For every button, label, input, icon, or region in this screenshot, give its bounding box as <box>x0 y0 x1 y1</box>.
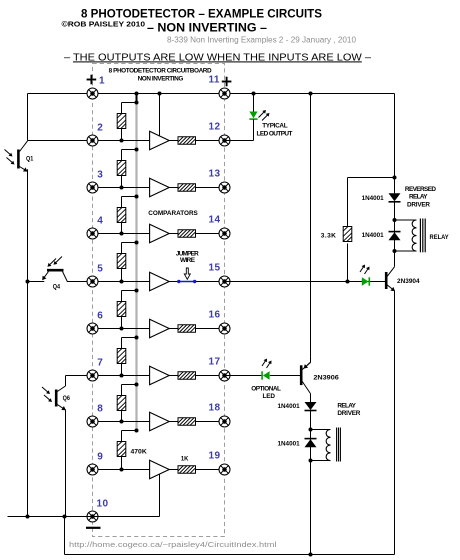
label OPTIONAL LED <box>251 385 281 400</box>
plus sign at terminal 11 <box>222 77 232 87</box>
transistor Q1 phototransistor <box>18 141 27 172</box>
svg-text:4: 4 <box>97 215 103 226</box>
svg-text:LED OUTPUT: LED OUTPUT <box>257 130 293 137</box>
svg-text:2N3906: 2N3906 <box>313 375 339 382</box>
resistor R4 pull-up <box>117 241 138 282</box>
light arrows out of LED D4 <box>360 265 370 275</box>
svg-text:NON INVERTING: NON INVERTING <box>138 76 184 83</box>
svg-text:14: 14 <box>209 215 221 226</box>
resistor R7 pull-up <box>117 383 138 422</box>
wire: left rail vertical x=27 <box>26 94 30 519</box>
op-amp comparator U5 <box>150 319 170 338</box>
terminal 9 <box>87 464 98 475</box>
op-amp comparator U1 <box>150 131 170 150</box>
LED D1 typical led output (green) <box>225 94 258 141</box>
resistor output row 18 <box>178 418 196 426</box>
terminal 5 <box>87 276 98 287</box>
wire: row 8 input to comparator <box>93 420 150 424</box>
label RELAY DRIVER <box>337 402 360 417</box>
wire: mid vertical V+ to 2N3906 emitter <box>310 94 312 357</box>
svg-text:LED: LED <box>263 393 276 400</box>
op-amp comparator U7 <box>150 412 170 431</box>
wire: terminal 7 row to Q6 collector <box>66 375 93 377</box>
resistor R2 pull-up <box>117 148 138 188</box>
svg-text:DRIVER: DRIVER <box>337 410 360 417</box>
terminal 11 <box>219 88 230 99</box>
svg-text:RELAY: RELAY <box>409 193 428 200</box>
terminal 10 <box>87 511 98 522</box>
svg-text:12: 12 <box>209 122 221 133</box>
wire: row 5 input to comparator <box>93 280 150 284</box>
wire: comparator 6 output to terminal 17 <box>169 375 224 377</box>
relay K2 coil <box>311 428 341 462</box>
svg-text:19: 19 <box>209 451 221 462</box>
label TYPICAL LED OUTPUT <box>257 122 293 137</box>
op-amp comparator U6 <box>150 366 170 385</box>
wire: row 4 input to comparator <box>93 232 150 236</box>
svg-text:8: 8 <box>97 403 103 414</box>
wire: ground row terminal 10 <box>8 515 93 519</box>
terminal 14 <box>219 228 230 239</box>
light arrows out of LED D5 <box>262 359 272 369</box>
wire: left rail corner to terminal 2 <box>28 140 93 142</box>
wire: row 9 input to comparator <box>93 468 150 472</box>
diode D7 1N4001 flyback (points up) <box>305 439 317 448</box>
wire: diode D2 to relay top junction <box>393 202 397 253</box>
svg-text:OPTIONAL: OPTIONAL <box>251 385 281 392</box>
wire: comparator 3 output to terminal 14 <box>169 233 224 235</box>
svg-text:3: 3 <box>97 169 103 180</box>
svg-text:8 PHOTODETECTOR – EXAMPLE CIRC: 8 PHOTODETECTOR – EXAMPLE CIRCUITS <box>81 6 322 20</box>
wire: 2N3906 collector down <box>310 394 312 402</box>
terminal 8 <box>87 416 98 427</box>
light arrows out of LED D1 <box>259 110 270 121</box>
terminal 16 <box>219 323 230 334</box>
svg-text:1: 1 <box>99 76 105 87</box>
svg-text:– NON INVERTING –: – NON INVERTING – <box>147 23 268 35</box>
op-amp comparator U8 <box>150 460 170 479</box>
terminal 7 <box>87 370 98 381</box>
svg-text:2N3904: 2N3904 <box>397 278 420 285</box>
jumper wire label and arrow <box>176 250 199 279</box>
transistor Q4 phototransistor <box>42 270 67 281</box>
resistor R1 pull-up <box>117 101 138 141</box>
transistor Q6 phototransistor <box>56 376 66 517</box>
terminal 18 <box>219 416 230 427</box>
terminal 2 <box>87 135 98 146</box>
light arrows into Q6 <box>42 387 52 402</box>
terminal 6 <box>87 323 98 334</box>
svg-text:18: 18 <box>209 403 221 414</box>
wire: relay K2 bottom to ground frame <box>310 461 312 555</box>
op-amp comparator U3 <box>150 224 170 243</box>
label REVERSED RELAY DRIVER <box>405 186 436 209</box>
svg-text:6: 6 <box>97 310 103 321</box>
svg-text:11: 11 <box>209 75 220 86</box>
resistor 3.3K <box>343 178 394 282</box>
light arrows into Q1 <box>5 150 15 165</box>
svg-text:16: 16 <box>209 310 221 321</box>
wire: diode D6 to relay K2 <box>309 411 313 463</box>
circuit board dashed outline <box>93 64 225 537</box>
resistor output row 19 <box>178 466 196 474</box>
transistor Q3 2N3906 (PNP) <box>301 357 310 394</box>
board label: 8 PHOTODETECTOR CIRCUITBOARD / NON INVERTING <box>109 68 212 83</box>
wire: comparator 5 output to terminal 16 <box>169 328 224 330</box>
svg-text:Q1: Q1 <box>26 156 34 163</box>
wire: right rail V+ down to diode <box>393 94 397 194</box>
svg-text:1N4001: 1N4001 <box>362 232 384 239</box>
svg-text:7: 7 <box>97 357 103 368</box>
terminal 13 <box>219 182 230 193</box>
resistor output row 17 <box>178 372 196 380</box>
svg-text:9: 9 <box>97 451 103 462</box>
diode D2 1N4001 (reversed relay driver, series) <box>389 193 401 202</box>
svg-text:8-339 Non Inverting Examples 2: 8-339 Non Inverting Examples 2 - 29 Janu… <box>167 35 357 44</box>
wire: row 2 input to comparator <box>93 139 150 143</box>
wire: comparator 2 output to terminal 13 <box>169 187 224 189</box>
svg-text:5: 5 <box>97 263 103 274</box>
minus bar below terminal 10 <box>86 527 101 529</box>
jumper wire (blue) row 15 <box>177 280 196 283</box>
svg-text:17: 17 <box>209 357 221 368</box>
svg-text:Q4: Q4 <box>53 284 61 291</box>
relay K1 coil <box>395 219 426 253</box>
svg-text:Q6: Q6 <box>63 395 71 402</box>
terminal 12 <box>219 135 230 146</box>
resistor R5 pull-up <box>117 289 138 329</box>
wire: row 7 input to comparator <box>93 374 150 378</box>
wire: gray V+ bus for pull-up resistors <box>136 94 138 431</box>
LED D5 optional (green, points left) <box>262 371 270 379</box>
svg-text:1N4001: 1N4001 <box>362 195 384 202</box>
light arrows into Q4 <box>48 257 63 267</box>
terminal 4 <box>87 228 98 239</box>
wire: row 3 input to comparator <box>93 186 150 190</box>
wire: comparator 1 output to terminal 12 <box>169 140 224 142</box>
svg-text:15: 15 <box>209 263 221 274</box>
wire: terminal 10 to comparator ground <box>93 475 160 517</box>
svg-text:RELAY: RELAY <box>337 402 356 409</box>
wire: ground return frame at bottom <box>65 517 395 557</box>
terminal 15 <box>219 276 230 287</box>
resistor R3 pull-up <box>117 195 138 234</box>
terminal 3 <box>87 182 98 193</box>
svg-text:2: 2 <box>97 122 103 133</box>
svg-text:8 PHOTODETECTOR CIRCUITBOARD: 8 PHOTODETECTOR CIRCUITBOARD <box>109 68 212 75</box>
svg-text:3.3K: 3.3K <box>321 232 337 239</box>
wire: comparator 4 output to terminal 15 <box>169 281 224 283</box>
resistor output row 12 <box>178 137 196 145</box>
wire: comparator 8 output to terminal 19 <box>169 469 224 471</box>
svg-text:http://home.cogeco.ca/~rpaisle: http://home.cogeco.ca/~rpaisley4/Circuit… <box>69 540 277 549</box>
wire: V+ top rail from left rail through T1 and T11 to right rail <box>28 92 395 96</box>
svg-text:470K: 470K <box>131 449 147 456</box>
svg-text:RELAY: RELAY <box>430 234 450 241</box>
diode D6 1N4001 (relay driver, series) <box>305 402 317 411</box>
op-amp comparator U2 <box>150 178 170 197</box>
svg-text:13: 13 <box>209 169 221 180</box>
terminal 1 <box>87 88 98 99</box>
svg-text:COMPARATORS: COMPARATORS <box>148 210 198 217</box>
terminal 17 <box>219 370 230 381</box>
resistor R8 pull-up <box>117 429 138 470</box>
resistor R6 pull-up <box>117 336 138 376</box>
svg-text:TYPICAL: TYPICAL <box>262 122 287 129</box>
svg-text:1N4001: 1N4001 <box>278 403 300 410</box>
terminal 19 <box>219 464 230 475</box>
svg-text:DRIVER: DRIVER <box>407 201 430 208</box>
wire: row 17 to optional LED and base <box>225 375 301 377</box>
LED D4 on 2N3904 base (green, points right) <box>362 277 370 285</box>
wire: base row 15 to 2N3904 <box>225 280 386 284</box>
wire: terminal 5 row via Q4 <box>28 281 93 283</box>
resistor output row 14 <box>178 230 196 238</box>
plus sign at terminal 1 <box>87 75 97 85</box>
wire: comparator 7 output to terminal 18 <box>169 421 224 423</box>
resistor output row 13 <box>178 184 196 192</box>
svg-text:– THE OUTPUTS ARE LOW WHEN THE: – THE OUTPUTS ARE LOW WHEN THE INPUTS AR… <box>64 52 371 63</box>
wire: row 6 input to comparator <box>93 327 150 331</box>
transistor Q2 2N3904 <box>386 251 395 555</box>
svg-text:WIRE: WIRE <box>180 257 196 264</box>
resistor output row 16 <box>178 325 196 333</box>
wire: op-amp V+ feed <box>159 94 161 136</box>
op-amp comparator U4 <box>150 272 170 291</box>
svg-text:10: 10 <box>97 499 109 510</box>
svg-text:1K: 1K <box>181 455 189 462</box>
svg-text:©ROB PAISLEY 2010: ©ROB PAISLEY 2010 <box>62 19 146 28</box>
svg-text:REVERSED: REVERSED <box>405 186 436 193</box>
diode D3 1N4001 flyback (points up) <box>389 232 401 241</box>
svg-text:1N4001: 1N4001 <box>278 440 300 447</box>
